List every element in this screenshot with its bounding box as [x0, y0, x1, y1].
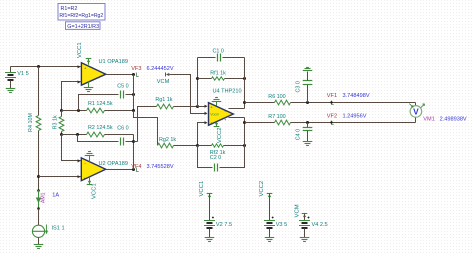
svg-text:2.498938V: 2.498938V	[440, 116, 467, 122]
current source IS1 1	[32, 225, 64, 245]
node junction U2 out / VF4	[132, 168, 135, 171]
svg-text:3.745528V: 3.745528V	[147, 164, 174, 170]
voltmeter VM1	[409, 104, 467, 123]
svg-text:C6 0: C6 0	[117, 125, 128, 131]
voltage source V3 5	[264, 194, 287, 238]
wire U2 output	[106, 169, 134, 171]
voltage source V1 5	[5, 67, 29, 89]
svg-text:VCC1: VCC1	[77, 42, 83, 58]
wire U2 -input feedback	[62, 135, 81, 163]
node junction V1/R4	[37, 65, 40, 68]
node junction R1/C5	[77, 109, 80, 112]
svg-text:VCC2: VCC2	[217, 127, 223, 143]
resistor R6 100	[245, 94, 416, 105]
wire to voltmeter top	[415, 103, 417, 106]
svg-text:R2 124.5k: R2 124.5k	[88, 125, 113, 131]
svg-text:VF3: VF3	[131, 66, 141, 72]
resistor R3 1k	[53, 111, 64, 135]
svg-text:C1 0: C1 0	[213, 49, 224, 55]
node junction R1 right	[132, 109, 135, 112]
node junction C6/Rg1/U2 out	[132, 140, 138, 143]
voltage pin VF4	[131, 164, 174, 171]
capacitor C3 0	[295, 72, 312, 103]
note box: gain equation	[66, 22, 101, 30]
op-amp U2 OPA189	[81, 158, 128, 181]
ground above U2	[85, 152, 95, 162]
svg-text:R7 100: R7 100	[268, 114, 285, 120]
node junction R2/R3/U2-	[60, 133, 63, 136]
resistor Rf1 1k	[198, 71, 245, 81]
wire to U2 +input	[39, 175, 81, 178]
resistor R1 124.5k	[62, 101, 134, 113]
svg-text:V2 7.5: V2 7.5	[216, 222, 232, 228]
node junction Rf1 left	[196, 77, 199, 80]
VCM supply jumper	[295, 204, 308, 217]
svg-text:Vocm: Vocm	[210, 113, 219, 117]
VCM net jumper	[157, 73, 170, 86]
voltage source V4 2.5	[299, 214, 328, 238]
note box: design equations	[58, 4, 105, 21]
ground above C3	[303, 68, 313, 71]
svg-text:R1=R2: R1=R2	[61, 6, 78, 12]
svg-text:V: V	[413, 107, 419, 117]
wire U2 out vertical	[133, 135, 135, 170]
wire U1 -input feedback	[62, 80, 81, 110]
node junction OUT-/R7	[243, 121, 246, 124]
svg-text:U1 OPA189: U1 OPA189	[99, 59, 128, 65]
ground below IS1	[34, 245, 44, 249]
svg-text:C2 0: C2 0	[210, 155, 221, 161]
node junction R2/C6	[76, 133, 79, 136]
wire V1 to U1 +input	[11, 65, 81, 68]
ground below V4	[300, 238, 310, 242]
wire top feedback right vertical	[244, 58, 246, 109]
resistor R2 124.5k	[62, 125, 134, 137]
svg-text:C5 0: C5 0	[117, 83, 128, 89]
VCC2 supply jumper	[259, 181, 273, 197]
ground below V2	[205, 238, 215, 242]
node junction R1/R3/U1-	[60, 109, 63, 112]
svg-text:U2 OPA189: U2 OPA189	[99, 161, 128, 167]
VCC1 jumper above U1	[77, 42, 91, 64]
ammeter AM1	[36, 189, 60, 210]
voltage pin VF1	[327, 93, 370, 104]
wire bottom feedback right vertical	[244, 118, 246, 146]
svg-text:R6 100: R6 100	[268, 94, 285, 100]
svg-text:3.748498V: 3.748498V	[343, 93, 370, 99]
node junction Rg2/Rf2/U4 IN-	[196, 144, 199, 147]
svg-text:Rg2 1k: Rg2 1k	[159, 137, 176, 143]
svg-text:VCM: VCM	[157, 79, 170, 85]
wire top feedback left vertical	[197, 58, 199, 107]
svg-text:Rg1 1k: Rg1 1k	[155, 97, 172, 103]
svg-text:U4 THP210: U4 THP210	[213, 88, 242, 94]
ground below V3	[265, 238, 275, 242]
ground below C4	[303, 142, 313, 146]
svg-text:V3 5: V3 5	[276, 222, 288, 228]
ground below U1	[84, 82, 94, 92]
svg-text:VCM: VCM	[295, 204, 301, 217]
resistor Rg1 1k	[138, 97, 198, 142]
svg-text:Rf1 1k: Rf1 1k	[210, 71, 226, 77]
VCC1 jumper below U2	[87, 177, 98, 199]
wire AM1 to IS1	[38, 209, 40, 226]
wire U4 OUT+ jog	[229, 108, 245, 110]
op-amp U1 OPA189	[81, 59, 128, 86]
node junction Rf1 right	[243, 77, 246, 80]
svg-text:1A: 1A	[52, 192, 59, 198]
capacitor C6 0	[78, 125, 134, 145]
node junction Rg1/U4 IN+	[196, 105, 199, 108]
node junction R4/AM1/U2 +input	[37, 175, 40, 178]
svg-text:V1 5: V1 5	[17, 71, 29, 77]
wire U4 OUT- jog	[229, 117, 245, 119]
resistor Rg2 1k	[158, 137, 198, 148]
svg-text:R3 1k: R3 1k	[53, 115, 59, 129]
capacitor C5 0	[79, 83, 134, 110]
svg-text:VCC1: VCC1	[92, 183, 98, 199]
svg-text:VF1: VF1	[327, 93, 337, 99]
svg-text:VF2: VF2	[327, 114, 337, 120]
VCC1 supply jumper	[199, 181, 212, 197]
svg-text:Rf1=Rf2=Rg1=Rg2: Rf1=Rf2=Rg1=Rg2	[59, 13, 103, 19]
wire to voltmeter bottom	[415, 118, 417, 123]
svg-text:R4 10M: R4 10M	[28, 113, 34, 132]
wire into U4 top input	[198, 105, 208, 108]
node junction C5/U1 out column	[132, 93, 135, 96]
svg-text:G=1+2R1/R3: G=1+2R1/R3	[67, 24, 99, 30]
node junction Rf2 right	[243, 144, 246, 147]
capacitor C1 0	[198, 49, 245, 62]
voltage source V2 7.5	[204, 194, 232, 238]
voltage pin VF2	[327, 114, 367, 125]
VCC2 jumper below U4	[214, 123, 223, 144]
svg-text:IS1 1: IS1 1	[52, 226, 65, 232]
svg-text:VCC2: VCC2	[259, 181, 265, 197]
wire U1 out to Rg2 branch	[134, 111, 158, 146]
node junction C3/R6	[306, 101, 309, 104]
svg-text:VF4: VF4	[131, 164, 141, 170]
resistor R7 100	[245, 114, 416, 125]
node junction OUT+/R6	[243, 101, 246, 104]
capacitor C4 0	[295, 123, 312, 142]
node junction C4/R7	[306, 121, 309, 124]
svg-text:AM1: AM1	[41, 192, 47, 203]
svg-text:R1 124.5k: R1 124.5k	[88, 101, 113, 107]
ground below V1	[6, 89, 16, 93]
svg-text:VCC1: VCC1	[199, 181, 205, 197]
wire U1 output	[106, 74, 134, 76]
svg-text:C3 0: C3 0	[295, 81, 301, 92]
wire VCM to U4 VOCM pin	[170, 75, 208, 116]
svg-text:VM1: VM1	[423, 116, 435, 122]
svg-text:6.244452V: 6.244452V	[147, 66, 174, 72]
node junction U1 out / VF3	[132, 73, 135, 76]
wire into U4 bottom input	[198, 121, 208, 145]
voltage pin VF3	[131, 66, 174, 77]
capacitor C2 0	[198, 146, 245, 172]
wire U1 out vertical	[133, 75, 135, 111]
svg-text:1.24956V: 1.24956V	[343, 114, 367, 120]
resistor R4 10M	[28, 67, 41, 191]
svg-text:V4 2.5: V4 2.5	[312, 222, 328, 228]
resistor Rf2 1k	[198, 144, 245, 161]
op-amp U4 THP210 (fully differential)	[209, 88, 242, 125]
svg-text:C4 0: C4 0	[295, 129, 301, 140]
ground above U4	[212, 98, 222, 106]
